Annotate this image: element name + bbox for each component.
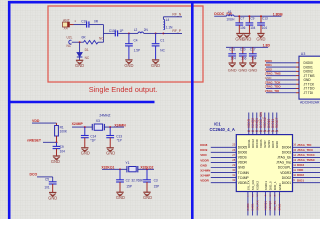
svg-text:27: 27 [232,153,235,157]
svg-text:DIO_1: DIO_1 [273,181,277,190]
svg-text:DIO01: DIO01 [282,181,291,185]
svg-text:NC: NC [99,37,104,41]
svg-text:U2L: U2L [67,36,73,40]
svg-text:X24MP: X24MP [72,122,84,126]
svg-text:NC: NC [85,56,90,60]
svg-text:28: 28 [232,158,235,162]
svg-text:106: 106 [241,57,246,61]
svg-text:104: 104 [250,26,255,30]
svg-text:VDDR: VDDR [200,178,209,182]
svg-text:DIO8: DIO8 [200,143,207,147]
svg-text:D1: D1 [85,48,89,52]
svg-text:25: 25 [275,129,279,133]
svg-text:1.8DB: 1.8DB [273,12,283,16]
svg-text:101: 101 [44,185,49,189]
svg-text:DIO04: DIO04 [282,146,291,150]
svg-text:JTAG_tck: JTAG_tck [277,156,291,160]
svg-text:1P: 1P [120,29,124,33]
svg-text:24MHZ: 24MHZ [99,113,110,117]
svg-text:JTAG_TMSC: JTAG_TMSC [297,158,316,162]
svg-text:30: 30 [232,168,235,172]
svg-text:IC1: IC1 [214,121,221,126]
svg-text:26: 26 [232,148,235,152]
svg-text:C2: C2 [126,179,130,183]
svg-text:GND: GND [48,195,57,200]
svg-text:104: 104 [60,150,65,154]
svg-text:C13: C13 [262,16,268,20]
svg-text:VDD: VDD [297,168,304,172]
svg-text:1.8D: 1.8D [263,43,271,47]
svg-text:SX_TX: SX_TX [273,201,277,211]
svg-text:VDD: VDD [32,119,40,123]
svg-text:SX_RX: SX_RX [255,200,259,210]
svg-text:C17: C17 [250,48,256,52]
svg-text:JTAG_TDO: JTAG_TDO [297,148,313,152]
svg-text:GND: GND [278,183,282,191]
svg-text:RF_P: RF_P [172,29,181,33]
svg-text:GND: GND [256,36,265,41]
svg-text:X4: X4 [64,27,68,31]
svg-text:SX_RX: SX_RX [251,180,255,190]
svg-text:VDDR3: VDDR3 [280,171,291,175]
svg-text:L2: L2 [134,28,138,32]
svg-text:X3: X3 [96,119,100,123]
svg-text:GND: GND [238,166,246,170]
svg-text:GND: GND [124,63,133,68]
svg-text:25: 25 [232,143,235,147]
svg-text:U3: U3 [301,52,306,56]
svg-text:L6: L6 [228,10,232,14]
svg-text:L4: L4 [166,18,170,22]
svg-text:X32K1: X32K1 [264,181,268,191]
svg-text:X32K2: X32K2 [256,181,260,191]
svg-text:GND: GND [242,36,251,41]
svg-text:DIO06: DIO06 [238,151,247,155]
svg-text:C5: C5 [45,177,49,181]
svg-text:DIO02: DIO02 [282,176,291,180]
svg-text:NC: NC [160,48,165,52]
svg-text:C15: C15 [229,48,235,52]
svg-text:DIO1: DIO1 [251,203,255,211]
svg-text:*1P: *1P [90,138,95,142]
svg-text:32.768K: 32.768K [131,179,144,183]
svg-text:C9: C9 [250,16,254,20]
svg-text:DIO3: DIO3 [297,163,304,167]
svg-text:100K: 100K [60,130,68,134]
svg-text:SX_TX: SX_TX [246,180,250,190]
svg-text:C3: C3 [154,179,158,183]
svg-text:DIO1: DIO1 [297,178,304,182]
svg-text:*1P: *1P [117,139,122,143]
svg-text:X32Q2: X32Q2 [268,201,272,211]
svg-text:C7: C7 [240,16,244,20]
svg-text:ADC6402AR: ADC6402AR [300,101,320,105]
svg-text:GND: GND [81,151,90,156]
svg-text:X24MP: X24MP [200,173,210,177]
svg-text:X32Q1: X32Q1 [264,201,268,211]
svg-text:DIO2: DIO2 [297,173,304,177]
svg-text:CC2640_4_A: CC2640_4_A [210,127,235,132]
svg-text:GND: GND [51,159,60,164]
svg-text:GND: GND [200,163,208,167]
svg-text:GND: GND [248,68,257,73]
svg-text:VDDR: VDDR [238,161,248,165]
svg-text:JT TDI: JT TDI [304,91,314,95]
svg-text:15P: 15P [126,184,132,188]
svg-text:TC4MN: TC4MN [238,171,250,175]
svg-text:GND: GND [106,151,115,156]
svg-text:nRESET: nRESET [27,138,42,142]
svg-text:DCO: DCO [30,173,38,177]
svg-text:DCOUPL: DCOUPL [278,166,292,170]
svg-text:DIO9: DIO9 [200,148,207,152]
svg-text:VDDR: VDDR [200,158,209,162]
svg-text:JTAG_TDI: JTAG_TDI [297,143,311,147]
svg-text:DIO05: DIO05 [238,146,247,150]
svg-text:C4: C4 [134,38,138,42]
svg-text:GND: GND [228,68,237,73]
svg-text:DIO03: DIO03 [282,151,291,155]
svg-text:VDDS: VDDS [238,156,247,160]
svg-text:104: 104 [262,26,267,30]
svg-text:RESET: RESET [275,117,279,128]
svg-text:GND: GND [275,140,279,148]
svg-text:NC: NC [67,44,72,48]
svg-text:104: 104 [231,57,236,61]
svg-text:DIO0: DIO0 [246,203,250,211]
svg-text:JTAG_TCKC: JTAG_TCKC [297,153,316,157]
svg-text:GND: GND [151,63,160,68]
svg-text:15P: 15P [154,184,160,188]
svg-text:Single Ended output.: Single Ended output. [89,85,158,94]
svg-text:C20: C20 [240,48,246,52]
svg-text:RF_N: RF_N [172,13,181,17]
svg-text:C9: C9 [60,145,64,149]
svg-text:29: 29 [232,163,235,167]
svg-text:VDD: VDD [200,153,207,157]
svg-text:JTAG_tms: JTAG_tms [276,161,291,165]
svg-text:GND: GND [75,63,84,68]
svg-text:JTAG_TDI: JTAG_TDI [265,89,279,93]
svg-text:106: 106 [240,26,245,30]
svg-text:32: 32 [232,178,235,182]
svg-text:Y1: Y1 [125,161,129,165]
svg-text:C1: C1 [160,38,164,42]
svg-text:GND: GND [116,195,125,200]
svg-text:GND: GND [238,68,247,73]
svg-text:10UH: 10UH [226,18,235,22]
svg-text:104: 104 [251,57,256,61]
svg-text:X24MN: X24MN [200,168,210,172]
svg-text:DIO_0: DIO_0 [269,181,273,190]
svg-text:GND: GND [278,203,282,211]
svg-text:TC4MP: TC4MP [238,176,249,180]
svg-text:1.5P: 1.5P [134,48,140,52]
svg-text:31: 31 [232,173,235,177]
svg-text:GND: GND [143,195,152,200]
